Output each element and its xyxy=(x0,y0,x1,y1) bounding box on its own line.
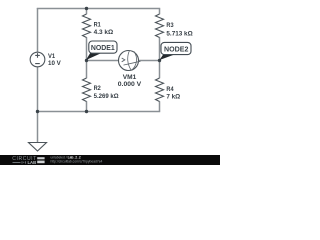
component labels xyxy=(48,21,193,100)
wire R2 leads xyxy=(86,61,88,112)
svg-text:http://circuitlab.com/c/7hpybe: http://circuitlab.com/c/7hpybead7e4 xyxy=(51,159,103,163)
wire meter left xyxy=(87,60,119,62)
wire ground stem xyxy=(37,112,39,143)
wire top rail xyxy=(37,8,160,10)
svg-text:R3: R3 xyxy=(166,22,173,29)
wire R4 leads xyxy=(159,61,161,112)
wire R1 leads xyxy=(86,9,88,61)
wire meter right xyxy=(139,60,160,62)
ground xyxy=(29,143,47,152)
voltmeter VM1 gauge icon xyxy=(122,51,141,71)
svg-text:LAB: LAB xyxy=(28,160,37,165)
resistor R4 xyxy=(156,78,164,102)
svg-text:7 kΩ: 7 kΩ xyxy=(166,93,180,100)
resistor R3 xyxy=(156,14,164,38)
svg-text:R2: R2 xyxy=(94,85,101,92)
resistor R2 xyxy=(83,78,91,102)
svg-text:V1: V1 xyxy=(48,53,55,60)
voltmeter VM1 xyxy=(119,51,139,71)
svg-text:R4: R4 xyxy=(166,86,173,93)
svg-text:10 V: 10 V xyxy=(48,60,61,67)
node NODE1 flag xyxy=(86,41,117,60)
node A junction dots xyxy=(36,7,161,113)
wire R3 leads xyxy=(159,9,161,61)
svg-text:4.3 kΩ: 4.3 kΩ xyxy=(94,29,114,36)
wire left rail lower xyxy=(37,67,39,112)
svg-text:5.269 kΩ: 5.269 kΩ xyxy=(94,93,119,100)
svg-text:NODE1: NODE1 xyxy=(91,43,115,52)
node NODE2 flag xyxy=(160,42,192,60)
wire bottom rail xyxy=(37,111,160,113)
svg-text:5.713 kΩ: 5.713 kΩ xyxy=(166,30,193,37)
svg-text:NODE2: NODE2 xyxy=(164,45,188,54)
svg-text:R1: R1 xyxy=(94,21,101,28)
wire left rail upper xyxy=(37,8,39,52)
voltage source V1 xyxy=(30,52,45,67)
svg-text:0.000 V: 0.000 V xyxy=(118,81,142,88)
watermark bar xyxy=(0,155,220,165)
resistor R1 xyxy=(83,14,91,38)
